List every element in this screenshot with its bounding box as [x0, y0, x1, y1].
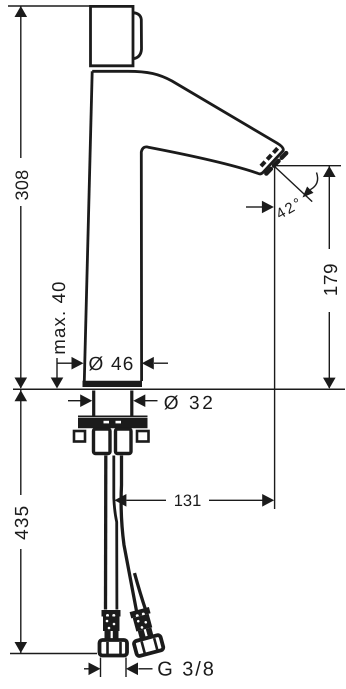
left retaining tab — [74, 431, 85, 442]
spout tip vertical reference line — [274, 167, 276, 510]
faucet handle — [91, 6, 134, 65]
G3/8 right arrow — [126, 663, 138, 676]
arrow up 308 — [14, 6, 27, 17]
arrow down 179 — [323, 378, 336, 389]
left valve body — [94, 429, 111, 454]
dimension 179 line — [328, 166, 330, 249]
arrow down max40 — [51, 378, 64, 389]
dimension 308 line — [20, 6, 22, 158]
bottom extension line — [10, 653, 97, 655]
right hose left edge — [121, 456, 136, 612]
arrow left d46 right — [142, 357, 154, 370]
arrow right d46 left — [72, 357, 84, 370]
right retaining tab — [137, 431, 149, 442]
body base band — [83, 381, 143, 387]
mounting nut dark band — [78, 418, 148, 429]
42 deg diagonal line — [275, 167, 313, 202]
top extension line — [8, 5, 90, 7]
42 deg curved arrow — [310, 173, 317, 190]
right valve body — [116, 429, 132, 454]
right hose right edge — [135, 573, 147, 611]
svg-text:Ø 46: Ø 46 — [89, 354, 135, 375]
aerator inner strip — [259, 148, 277, 168]
svg-text:179: 179 — [321, 263, 342, 296]
shank below surface — [92, 391, 95, 416]
max 40 leader branch — [57, 362, 72, 364]
svg-text:131: 131 — [174, 492, 202, 510]
left hose right edge — [114, 456, 117, 610]
svg-text:G 3/8: G 3/8 — [157, 659, 215, 681]
body left edge — [84, 71, 92, 381]
svg-text:435: 435 — [12, 505, 33, 540]
faucet body outline — [92, 71, 283, 381]
aerator outer band — [265, 153, 286, 175]
max 40 leader vertical — [56, 358, 58, 378]
handle side knob — [133, 13, 142, 59]
mounting nut top line — [78, 415, 148, 417]
arrow left d32 — [133, 394, 145, 407]
spout tip extension line — [273, 165, 341, 167]
dimension G3/8 extension lines — [100, 658, 102, 678]
dimension 131 — [114, 494, 126, 507]
arrow down 308 — [14, 378, 27, 389]
arrow up 435 — [14, 390, 27, 401]
svg-text:max. 40: max. 40 — [48, 280, 69, 354]
arrow up 179 — [323, 166, 336, 177]
arrow down 435 — [14, 642, 27, 653]
right hose crimp and connector — [126, 606, 164, 657]
42 deg horizontal arrow — [246, 206, 262, 208]
arrow right d32 — [68, 400, 82, 402]
G3/8 left arrow — [84, 668, 89, 670]
dimension 435 line — [20, 390, 22, 495]
svg-text:Ø 32: Ø 32 — [164, 393, 216, 414]
mounting surface line — [13, 388, 345, 390]
left hose left edge — [104, 456, 108, 610]
svg-text:308: 308 — [12, 170, 32, 201]
left hose crimp and connector — [100, 610, 128, 656]
